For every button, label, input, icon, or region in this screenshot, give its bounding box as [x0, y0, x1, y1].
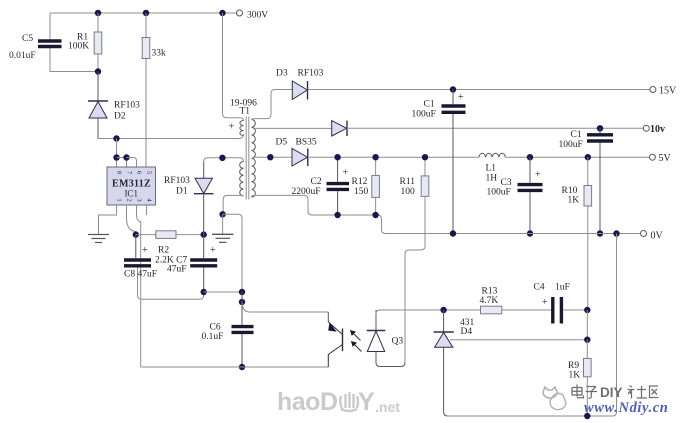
svg-text:300V: 300V	[247, 11, 268, 21]
diode D3 RF103	[292, 81, 307, 100]
svg-text:L1: L1	[486, 164, 497, 174]
wire pin1 to ground	[99, 205, 117, 234]
watermark cat logo	[543, 387, 566, 410]
wire feedback bottom to ground	[223, 195, 243, 214]
svg-text:33k: 33k	[152, 49, 167, 59]
wire node B vertical	[586, 310, 588, 340]
terminal 300V	[237, 10, 243, 16]
wire secondary mid tap to D5	[253, 156, 292, 158]
wire drain net (D2 to primary bottom)	[98, 134, 244, 139]
svg-text:Q3: Q3	[392, 337, 404, 347]
wire 0V rail	[386, 233, 641, 235]
capacitor C1 100uF (15V)	[450, 86, 456, 92]
node dot R2 right / D1 cathode	[201, 231, 207, 237]
T1 primary winding	[240, 121, 244, 136]
resistor 33k	[145, 13, 147, 38]
inductor L1 1H	[479, 153, 505, 157]
svg-text:5V: 5V	[659, 153, 672, 164]
svg-text:D2: D2	[114, 112, 126, 122]
node dot top of 33k	[143, 10, 149, 16]
wire pin3 line to emitter rail	[141, 366, 242, 368]
node dot on D5 wire	[267, 154, 273, 160]
svg-text:C2: C2	[311, 177, 322, 187]
svg-text:C1: C1	[424, 100, 435, 110]
watermark 电子DIY社区	[572, 385, 597, 399]
diode D1 RF103	[203, 162, 205, 178]
svg-text:+: +	[535, 170, 541, 181]
svg-text:0.1uF: 0.1uF	[202, 332, 224, 342]
svg-text:100uF: 100uF	[487, 188, 511, 198]
capacitor C4 1uF	[551, 297, 554, 324]
resistor R9 1K	[586, 340, 588, 359]
node dots R12	[372, 154, 378, 160]
svg-text:C8 47uF: C8 47uF	[124, 270, 157, 280]
node dot top of R1	[95, 10, 101, 16]
svg-text:www.Ndiy.cn: www.Ndiy.cn	[584, 400, 668, 416]
node dot node B ref	[584, 337, 590, 343]
terminal 15V	[650, 87, 656, 93]
svg-text:R2: R2	[158, 246, 169, 256]
svg-text:2: 2	[126, 198, 133, 201]
svg-text:0V: 0V	[651, 231, 664, 242]
svg-text:IC1: IC1	[124, 189, 138, 199]
svg-text:150: 150	[354, 187, 369, 197]
wire feedback top to D1 anode	[204, 158, 244, 162]
wire T1 ground to C6 riser	[223, 214, 242, 292]
svg-text:RF103: RF103	[114, 101, 140, 111]
svg-text:D4: D4	[461, 327, 473, 337]
wire riser to C6	[241, 292, 243, 325]
wire C7 bottom to C6 riser	[204, 291, 242, 293]
svg-text:BS35: BS35	[296, 138, 317, 148]
node dot pin7	[123, 154, 129, 160]
node dot 300V branch	[219, 10, 225, 16]
node dot R11 top	[422, 154, 428, 160]
svg-text:T1: T1	[240, 107, 251, 117]
resistor R10 1K	[585, 154, 591, 160]
node dot R9 bottom	[584, 413, 590, 419]
svg-text:haoD: haoD	[277, 388, 338, 416]
wire pin6 jog	[127, 158, 137, 168]
opto light arrow 2	[354, 344, 362, 352]
T1 secondary winding	[252, 120, 256, 198]
wire 10v rail	[347, 127, 643, 129]
svg-text:1: 1	[116, 198, 123, 201]
svg-text:R11: R11	[400, 177, 416, 187]
resistor R12 150	[375, 157, 377, 175]
svg-text:R10: R10	[562, 186, 578, 196]
node dot C1(15V) bottom on 0V rail	[450, 230, 456, 236]
node dot C6 riser upper	[239, 289, 245, 295]
svg-text:+: +	[142, 245, 148, 256]
svg-text:RF103: RF103	[164, 176, 190, 186]
diode Q3 opto LED	[375, 310, 377, 330]
svg-text:+: +	[229, 122, 235, 133]
node dots C2	[334, 154, 340, 160]
svg-text:1K: 1K	[568, 196, 580, 206]
node dot riser on 0V rail	[613, 230, 619, 236]
node dot T1 ground	[219, 211, 225, 217]
wire pin2 to R2 node	[127, 205, 136, 235]
wire pin4 stub	[146, 205, 148, 215]
wire pin8	[116, 139, 118, 168]
ground (IC pin1)	[88, 234, 109, 236]
resistor R11 100	[424, 157, 426, 176]
wire top rail to 300V	[50, 12, 237, 14]
node dot node B top	[584, 307, 590, 313]
node dot feedback top	[219, 155, 225, 161]
svg-text:10v: 10v	[650, 124, 665, 135]
svg-text:C6: C6	[210, 323, 221, 333]
T1 core	[246, 117, 249, 200]
diode D2 RF103	[97, 72, 99, 102]
capacitor C1 100uF (10v)	[597, 125, 603, 131]
terminal 0V	[641, 231, 647, 237]
capacitor C2 2200uF	[337, 157, 339, 182]
node dot C7 bottom	[201, 289, 207, 295]
diode D5 BS35	[292, 149, 308, 167]
wire collector branch	[242, 302, 328, 312]
svg-text:R13: R13	[482, 287, 498, 297]
svg-text:Y: Y	[358, 388, 375, 416]
svg-text:C5: C5	[22, 34, 33, 44]
terminal 5V	[649, 154, 655, 160]
svg-text:DIY: DIY	[600, 385, 623, 400]
svg-text:2200uF: 2200uF	[292, 187, 321, 197]
wire secondary tap to 10v diode	[253, 127, 332, 129]
node dot D4 top	[440, 307, 446, 313]
svg-text:C1: C1	[571, 130, 582, 140]
svg-text:5: 5	[146, 171, 153, 174]
capacitor C6 0.1uF	[232, 325, 254, 328]
svg-text:C4: C4	[534, 283, 545, 293]
wire secondary top to D3	[252, 90, 293, 120]
svg-text:D3: D3	[276, 69, 288, 79]
T1 feedback winding	[240, 162, 244, 197]
diode 10v rectifier	[332, 121, 347, 136]
svg-text:100: 100	[401, 187, 416, 197]
svg-text:+: +	[458, 92, 464, 103]
svg-text:0.01uF: 0.01uF	[9, 51, 36, 61]
svg-text:C3: C3	[501, 178, 512, 188]
svg-text:100uF: 100uF	[412, 110, 436, 120]
capacitor C5	[49, 13, 51, 40]
wire 300V to primary top	[223, 13, 244, 121]
svg-text:D5: D5	[276, 138, 288, 148]
node dot below R1	[95, 68, 101, 74]
wire bottom rail	[448, 234, 617, 417]
wire node A (LED top to R13)	[376, 310, 481, 314]
resistor R2 2.2K	[136, 234, 156, 236]
resistor R1	[97, 13, 99, 32]
svg-text:47uF: 47uF	[167, 265, 187, 275]
wire pin7 link	[117, 158, 127, 168]
svg-text:8: 8	[116, 171, 123, 174]
node dot pin8	[113, 154, 119, 160]
wire secondary bottom to 0V	[252, 195, 386, 233]
svg-text:100K: 100K	[68, 42, 89, 52]
capacitor C7 47uF	[203, 235, 205, 258]
svg-text:1K: 1K	[569, 371, 581, 381]
svg-text:1uF: 1uF	[555, 283, 570, 293]
svg-text:1H: 1H	[486, 174, 498, 184]
wire 5V rail right of L1	[505, 156, 649, 158]
wire 5V rail left of L1	[308, 156, 479, 158]
node dot C6 bottom	[239, 364, 245, 370]
svg-text:RF103: RF103	[298, 69, 324, 79]
resistor R13 4.7K	[481, 306, 502, 314]
wire D4 ref	[450, 339, 587, 341]
watermark haoDIY.net	[277, 388, 400, 416]
terminal 10v	[643, 125, 649, 131]
diode D4 431	[443, 310, 445, 332]
svg-text:D1: D1	[176, 187, 188, 197]
opto light arrow 1	[353, 333, 361, 341]
wire emitter rail	[242, 366, 328, 368]
svg-text:R9: R9	[568, 361, 579, 371]
svg-text:+: +	[542, 297, 548, 308]
node dot R2 left	[133, 231, 139, 237]
node dot C6 riser lower	[239, 299, 245, 305]
svg-text:100uF: 100uF	[559, 140, 583, 150]
svg-text:R12: R12	[352, 177, 368, 187]
svg-text:15V: 15V	[659, 86, 677, 97]
capacitor C3 100uF	[527, 154, 533, 160]
svg-text:.net: .net	[375, 399, 400, 415]
svg-text:+: +	[343, 168, 349, 179]
transistor Q3 opto phototransistor	[327, 312, 329, 322]
svg-text:3: 3	[136, 198, 143, 201]
ground (T1)	[222, 214, 224, 234]
IC IC1 EM311Z	[107, 167, 156, 205]
wire pin3 down	[137, 205, 141, 367]
svg-text:4.7K: 4.7K	[480, 296, 499, 306]
svg-text:+: +	[210, 245, 216, 256]
node dot on drain wire	[113, 135, 119, 141]
wire 15V rail	[308, 89, 650, 91]
capacitor C8 47uF	[135, 235, 137, 258]
